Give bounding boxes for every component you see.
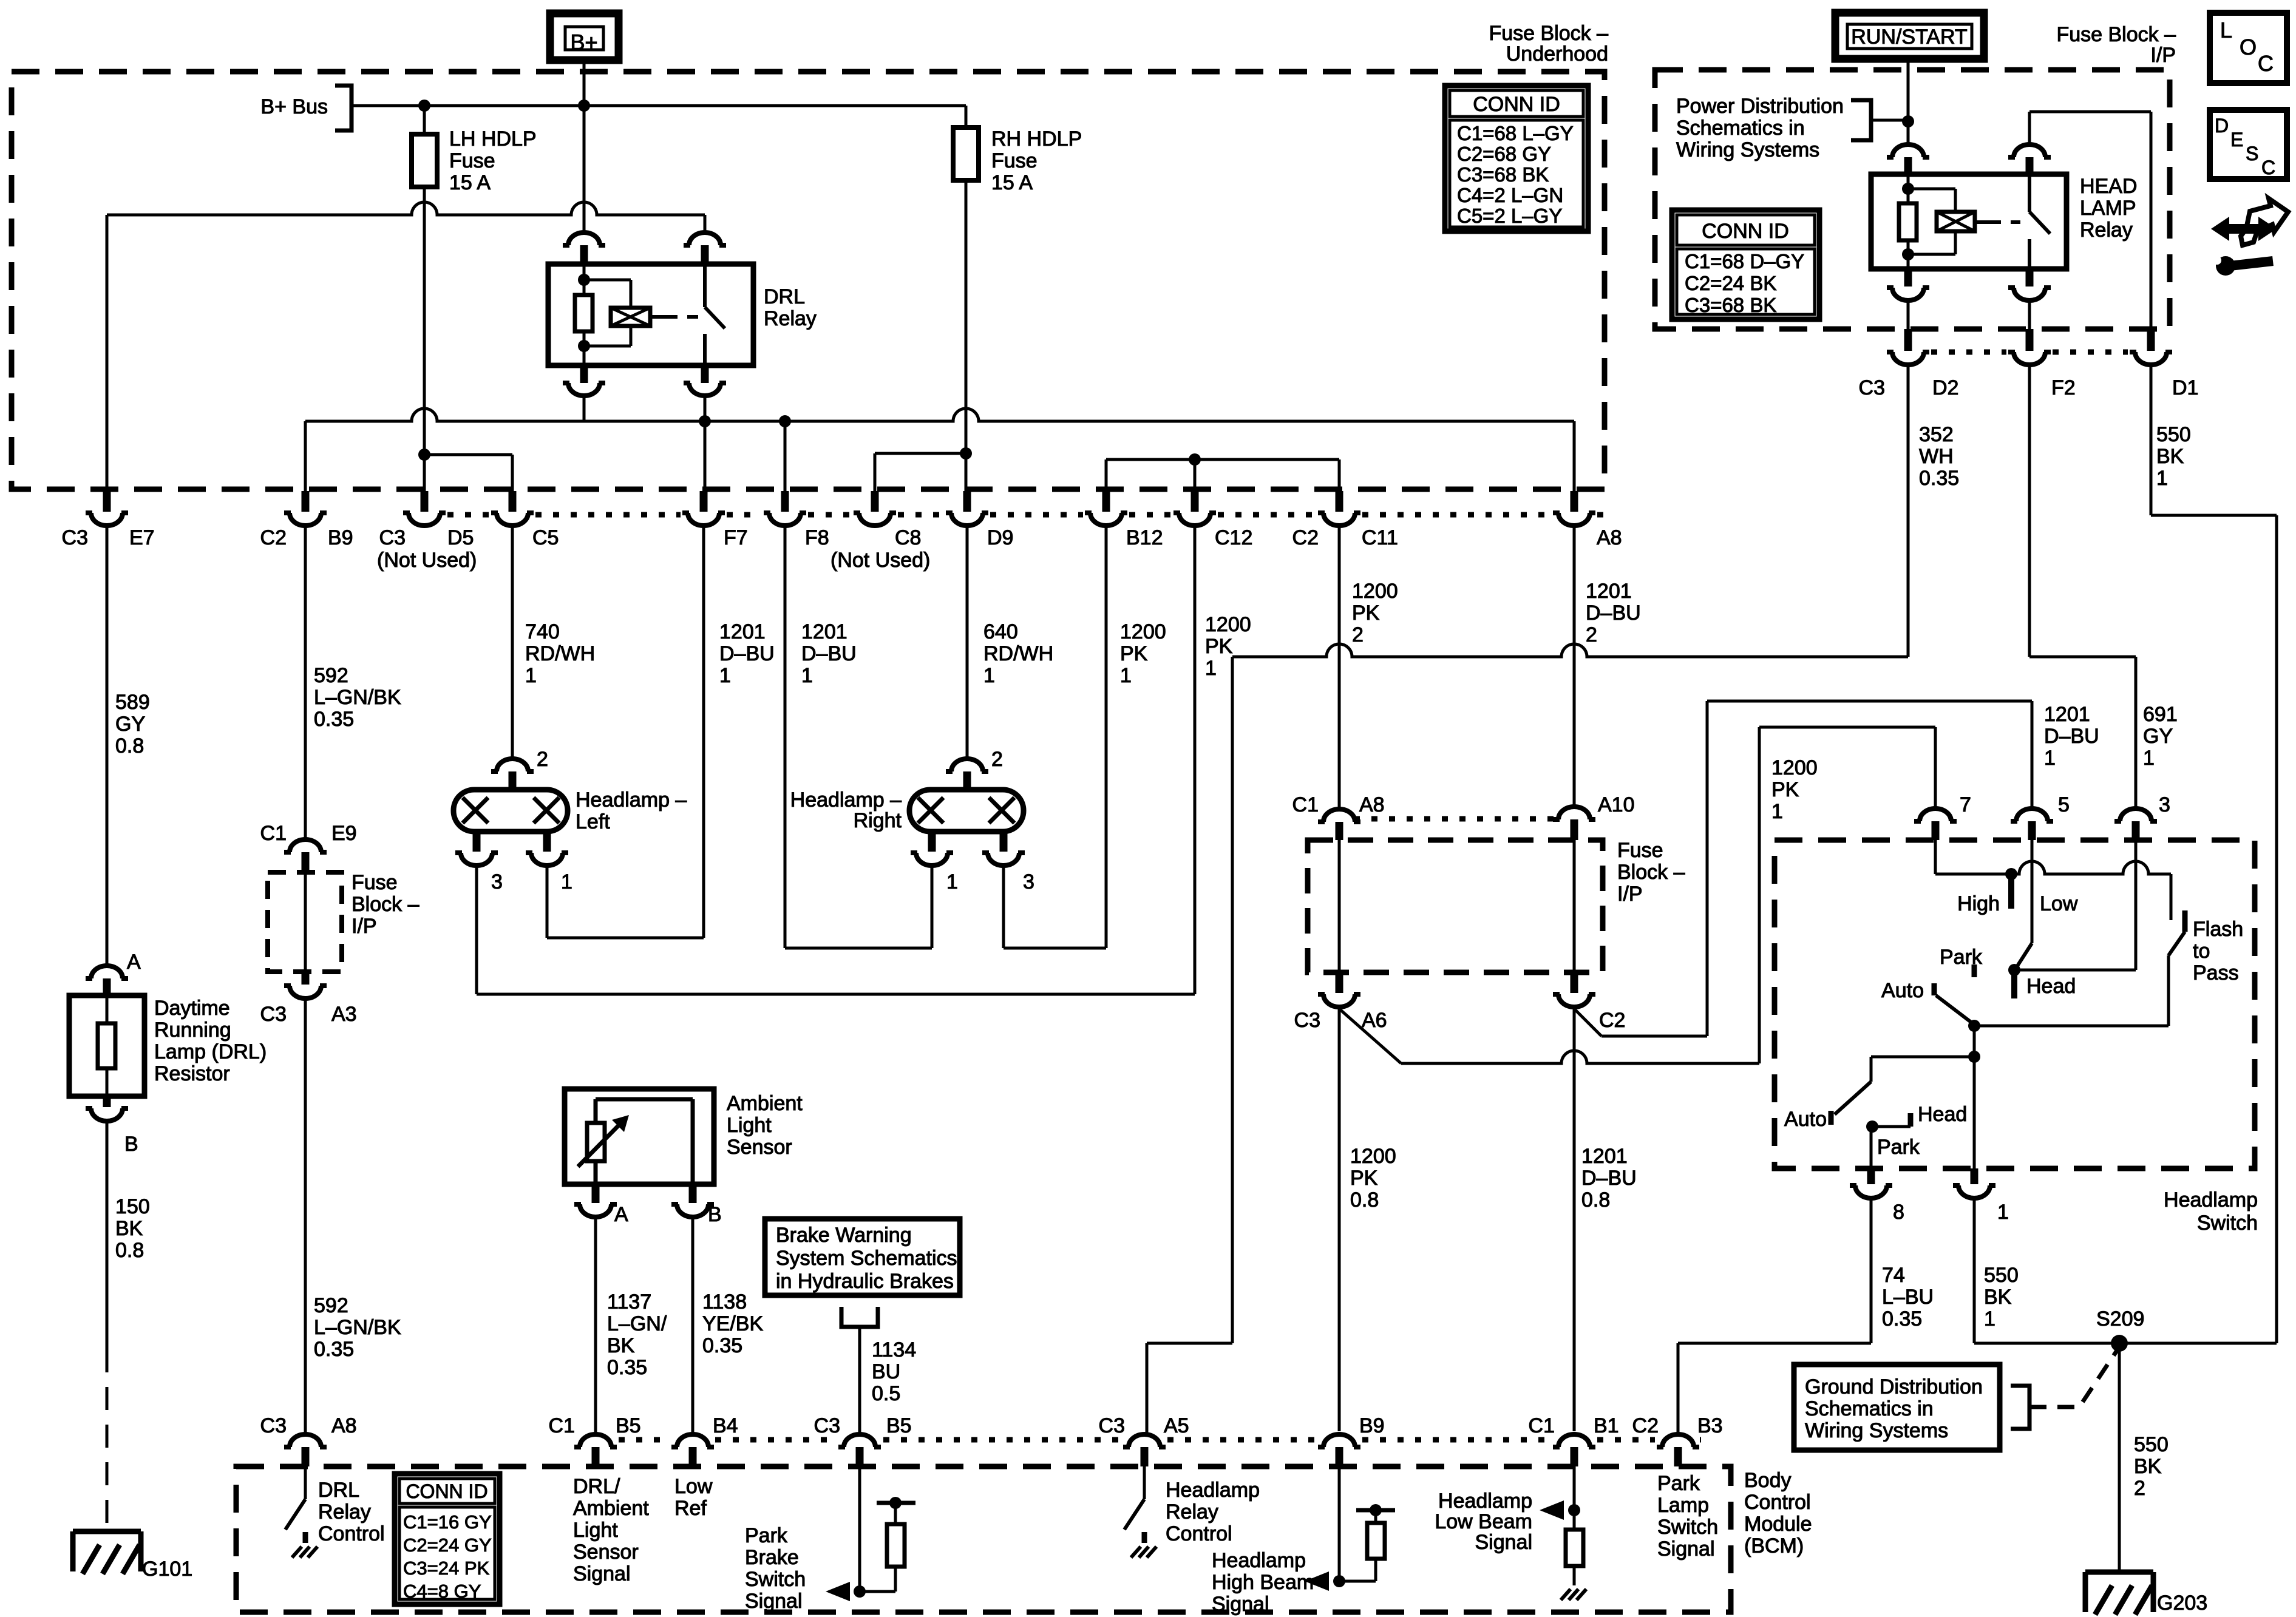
svg-text:C3: C3 [260, 1003, 287, 1026]
svg-text:Relay: Relay [318, 1500, 371, 1524]
wire C5 branch [424, 455, 512, 491]
svg-text:PK: PK [1352, 602, 1380, 625]
svg-text:I/P: I/P [2150, 44, 2176, 67]
connector F2 [2008, 329, 2076, 399]
wire 1200 PK 2 to fuse block [1292, 527, 1398, 840]
svg-text:C2: C2 [260, 526, 287, 549]
BCM headlamp relay control switch [1124, 1466, 1260, 1558]
svg-text:High: High [1957, 892, 2000, 915]
dotted connector face underhood [447, 512, 1610, 518]
switch dimmer contacts [1935, 840, 2171, 998]
svg-text:Ambient: Ambient [573, 1497, 649, 1520]
label Fuse Block IP top [2056, 23, 2176, 67]
svg-text:Signal: Signal [1212, 1593, 1269, 1616]
svg-text:Power Distribution: Power Distribution [1676, 95, 1844, 118]
svg-text:RD/WH: RD/WH [525, 642, 595, 665]
svg-text:F8: F8 [805, 526, 829, 549]
BCM DRL relay control switch [285, 1466, 385, 1558]
svg-text:Park: Park [745, 1524, 788, 1547]
svg-text:5: 5 [2058, 793, 2070, 816]
connector C2/B3 BCM [1632, 1414, 1723, 1466]
svg-text:B5: B5 [616, 1414, 641, 1437]
svg-text:Underhood: Underhood [1506, 42, 1608, 66]
svg-text:0.8: 0.8 [115, 1239, 144, 1262]
svg-text:C3: C3 [62, 526, 88, 549]
svg-text:550: 550 [1984, 1264, 2019, 1287]
connector C3/A3 [260, 972, 357, 1026]
svg-text:1201: 1201 [1581, 1145, 1628, 1168]
svg-text:Low: Low [2040, 892, 2078, 915]
svg-text:Headlamp: Headlamp [1212, 1549, 1306, 1572]
label park lamp switch signal [1657, 1472, 1718, 1561]
switch pin 1 [1953, 1168, 2009, 1224]
svg-text:E9: E9 [331, 822, 357, 845]
svg-text:BK: BK [2134, 1455, 2162, 1478]
BCM high beam input [1212, 1466, 1395, 1616]
switch selector upper [1784, 946, 2169, 1131]
connector C3/B5 park brake [814, 1414, 912, 1466]
svg-text:D–BU: D–BU [1586, 602, 1641, 625]
svg-text:GY: GY [2143, 725, 2173, 748]
svg-text:0.5: 0.5 [872, 1382, 900, 1405]
ground G203 [2085, 1572, 2207, 1615]
connector C1/B5 BCM [549, 1414, 641, 1466]
switch pin 8 [1850, 1168, 1904, 1224]
connector D1 [2130, 329, 2198, 399]
svg-text:to: to [2193, 940, 2210, 963]
svg-text:B3: B3 [1697, 1414, 1723, 1437]
svg-text:C2=68 GY: C2=68 GY [1457, 143, 1551, 165]
svg-text:Headlamp –: Headlamp – [790, 788, 902, 812]
svg-text:1: 1 [719, 664, 731, 687]
svg-text:O: O [2240, 35, 2257, 59]
wire DRL switch feed [107, 202, 705, 491]
wire 74 L-BU [1678, 1200, 1934, 1432]
svg-text:7: 7 [1960, 793, 1971, 816]
svg-text:1: 1 [561, 870, 572, 893]
svg-text:1: 1 [1771, 800, 1783, 823]
svg-text:BK: BK [2156, 445, 2184, 468]
svg-text:C11: C11 [1362, 526, 1398, 549]
DRL resistor [69, 951, 267, 1156]
svg-text:1200: 1200 [1350, 1145, 1396, 1168]
wire B12 C12 C11 tie [1106, 453, 1339, 491]
svg-text:B+ Bus: B+ Bus [260, 95, 328, 118]
svg-text:C5=2 L–GY: C5=2 L–GY [1457, 205, 1562, 227]
fuse RH HDLP 15A [953, 106, 1082, 194]
connector C3/E7 [62, 491, 155, 549]
svg-text:1: 1 [946, 870, 958, 893]
svg-text:A: A [127, 951, 141, 974]
svg-text:B5: B5 [886, 1414, 912, 1437]
label Fuse Block Underhood [1489, 22, 1608, 66]
wire 589 GY to DRL resistor [107, 527, 150, 964]
svg-text:C3: C3 [260, 1414, 287, 1437]
wire 1201 D-BU 0.8 to BCM [1574, 1009, 1637, 1431]
svg-text:Brake Warning: Brake Warning [776, 1224, 912, 1247]
connector B4 BCM [671, 1414, 738, 1466]
svg-text:PK: PK [1350, 1167, 1378, 1190]
svg-text:0.35: 0.35 [1882, 1307, 1922, 1331]
svg-text:C3: C3 [1859, 376, 1885, 399]
svg-text:Fuse: Fuse [991, 149, 1038, 172]
wire B+ bus [352, 60, 966, 112]
svg-text:Wiring Systems: Wiring Systems [1805, 1419, 1948, 1442]
svg-text:2: 2 [991, 748, 1003, 771]
svg-text:C3=68 BK: C3=68 BK [1457, 163, 1549, 186]
svg-text:A8: A8 [331, 1414, 357, 1437]
svg-text:(BCM): (BCM) [1744, 1534, 1804, 1558]
svg-text:Schematics in: Schematics in [1676, 117, 1805, 140]
svg-text:C3: C3 [379, 526, 406, 549]
wire F2 to switch 691 GY [2029, 367, 2178, 807]
svg-text:C3: C3 [814, 1414, 840, 1437]
note power distribution schematics [1676, 95, 1908, 161]
svg-text:691: 691 [2143, 703, 2178, 726]
svg-text:C12: C12 [1215, 526, 1252, 549]
svg-text:Ref: Ref [674, 1497, 707, 1520]
svg-text:C1: C1 [1529, 1414, 1555, 1437]
svg-text:S209: S209 [2096, 1307, 2144, 1331]
svg-text:Headlamp: Headlamp [1166, 1479, 1260, 1502]
svg-text:Park: Park [1877, 1136, 1920, 1159]
wire 592 lower [305, 1000, 401, 1432]
svg-text:C8: C8 [895, 526, 921, 549]
svg-text:DRL: DRL [764, 285, 805, 308]
svg-text:Fuse: Fuse [449, 149, 495, 172]
svg-text:L: L [2220, 18, 2232, 42]
svg-text:550: 550 [2134, 1433, 2169, 1456]
svg-text:Lamp: Lamp [1657, 1494, 1709, 1517]
svg-text:0.35: 0.35 [607, 1356, 647, 1379]
connector B9 BCM [1318, 1414, 1385, 1466]
connector C2/B9 [260, 491, 353, 549]
svg-text:A8: A8 [1359, 793, 1385, 816]
svg-text:C2: C2 [1599, 1009, 1625, 1032]
svg-text:BK: BK [1984, 1286, 2012, 1309]
BCM park brake input [745, 1466, 915, 1613]
wire 550 BK 1 pin1 [1974, 1200, 2277, 1343]
note ground distribution [1794, 1351, 2117, 1450]
svg-text:L–BU: L–BU [1882, 1286, 1934, 1309]
svg-text:1: 1 [983, 664, 995, 687]
wire 150 BK to ground [107, 1123, 150, 1530]
wire RH fuse output [960, 180, 972, 491]
svg-text:Sensor: Sensor [573, 1541, 639, 1564]
connector B12 [1085, 491, 1163, 549]
svg-text:D–BU: D–BU [719, 642, 775, 665]
svg-text:D: D [2215, 115, 2229, 137]
splice S209 [2096, 1307, 2144, 1352]
fuse LH HDLP 15A [412, 106, 537, 194]
switch selector lower [1866, 1057, 1974, 1168]
svg-text:0.8: 0.8 [1581, 1188, 1610, 1212]
svg-text:C1: C1 [1292, 793, 1319, 816]
svg-text:Fuse Block –: Fuse Block – [2056, 23, 2176, 46]
svg-text:Signal: Signal [573, 1562, 631, 1585]
svg-text:1201: 1201 [801, 620, 847, 643]
wire 1137 sensor signal [596, 1219, 667, 1432]
svg-text:(Not Used): (Not Used) [830, 549, 930, 572]
svg-text:Head: Head [1918, 1103, 1967, 1126]
body control module box [236, 1466, 1812, 1612]
svg-text:3: 3 [491, 870, 503, 893]
svg-text:L–GN/: L–GN/ [607, 1312, 667, 1335]
svg-text:CONN ID: CONN ID [1473, 93, 1560, 116]
svg-text:8: 8 [1893, 1201, 1904, 1224]
svg-text:C1=68 L–GY: C1=68 L–GY [1457, 122, 1574, 144]
switch pin 3 [2114, 793, 2170, 840]
wire 1200 PK 0.8 to BCM [1339, 1009, 1396, 1431]
svg-text:A10: A10 [1598, 793, 1635, 816]
svg-text:1: 1 [2044, 747, 2056, 770]
wire 592 upper [305, 527, 401, 838]
svg-text:1134: 1134 [872, 1338, 916, 1361]
svg-text:2: 2 [1352, 623, 1364, 646]
ambient light sensor [565, 1089, 803, 1226]
wire low beam right 1201 [785, 527, 932, 948]
svg-text:Control: Control [1166, 1522, 1232, 1545]
connector C2/C11 [1292, 491, 1398, 549]
svg-text:Relay: Relay [2080, 219, 2133, 242]
svg-text:Block –: Block – [352, 893, 419, 916]
svg-text:RH HDLP: RH HDLP [991, 127, 1082, 151]
svg-text:in Hydraulic Brakes: in Hydraulic Brakes [776, 1270, 954, 1293]
svg-text:Control: Control [1744, 1491, 1811, 1514]
svg-text:(Not Used): (Not Used) [377, 549, 477, 572]
svg-text:C2: C2 [1292, 526, 1319, 549]
svg-text:Lamp (DRL): Lamp (DRL) [154, 1040, 267, 1063]
svg-text:15 A: 15 A [449, 171, 491, 194]
fuse block IP middle [1308, 819, 1685, 972]
wire C8 branch [875, 453, 966, 491]
svg-text:Wiring Systems: Wiring Systems [1676, 138, 1819, 161]
svg-text:F2: F2 [2051, 376, 2076, 399]
svg-text:D2: D2 [1932, 376, 1958, 399]
svg-text:640: 640 [983, 620, 1018, 643]
svg-text:589: 589 [115, 691, 150, 714]
svg-text:D–BU: D–BU [1581, 1167, 1637, 1190]
node B+ Bus bracket [260, 86, 352, 131]
fuse block IP dashed box top right [1655, 70, 2170, 329]
svg-text:A6: A6 [1362, 1009, 1387, 1032]
svg-text:2: 2 [1586, 623, 1597, 646]
svg-text:BK: BK [115, 1217, 143, 1240]
connector C2 fuse block [1553, 972, 1625, 1032]
svg-text:1: 1 [1205, 657, 1217, 680]
wire 550 BK 1 from D1 [2151, 367, 2277, 1343]
headlamp relay [1871, 59, 2151, 329]
switch pin 5 [2011, 793, 2070, 840]
svg-text:C: C [2258, 51, 2274, 76]
svg-text:E: E [2230, 129, 2243, 151]
svg-text:Left: Left [576, 810, 610, 833]
svg-text:B: B [708, 1203, 722, 1226]
svg-text:Auto: Auto [1784, 1108, 1827, 1131]
svg-text:Light: Light [727, 1114, 772, 1137]
svg-text:1200: 1200 [1205, 613, 1251, 636]
connector A8 underhood [1553, 491, 1622, 549]
svg-text:I/P: I/P [1617, 883, 1643, 906]
svg-text:C3: C3 [1099, 1414, 1125, 1437]
svg-text:15 A: 15 A [991, 171, 1033, 194]
svg-text:HEAD: HEAD [2080, 175, 2137, 198]
svg-text:2: 2 [2134, 1477, 2145, 1500]
svg-text:Ambient: Ambient [727, 1092, 803, 1115]
svg-text:L–GN/BK: L–GN/BK [314, 1316, 401, 1339]
svg-text:Headlamp: Headlamp [2164, 1188, 2258, 1212]
svg-text:B+: B+ [570, 30, 597, 55]
svg-text:GY: GY [115, 713, 145, 736]
svg-text:B4: B4 [713, 1414, 738, 1437]
svg-text:L–GN/BK: L–GN/BK [314, 686, 401, 709]
svg-text:Daytime: Daytime [154, 997, 230, 1020]
svg-text:C2: C2 [1632, 1414, 1659, 1437]
svg-text:High Beam: High Beam [1212, 1571, 1314, 1594]
svg-text:Low Beam: Low Beam [1435, 1510, 1532, 1533]
svg-text:D9: D9 [987, 526, 1013, 549]
svg-text:Running: Running [154, 1019, 231, 1042]
svg-text:Head: Head [2026, 975, 2076, 998]
svg-text:Right: Right [854, 809, 902, 832]
svg-text:BU: BU [872, 1360, 900, 1383]
svg-text:RUN/START: RUN/START [1851, 25, 1967, 49]
svg-text:Switch: Switch [2197, 1212, 2258, 1235]
connector C3/D5 not used [377, 491, 477, 572]
BCM low beam input [1435, 1466, 1586, 1600]
svg-text:C3=68 BK: C3=68 BK [1685, 294, 1776, 316]
svg-text:CONN ID: CONN ID [1702, 220, 1789, 243]
svg-text:Light: Light [573, 1519, 618, 1542]
svg-text:550: 550 [2156, 423, 2191, 446]
svg-text:S: S [2246, 143, 2258, 164]
svg-text:Control: Control [318, 1522, 385, 1545]
svg-text:Signal: Signal [1657, 1537, 1715, 1561]
connector F8 [764, 491, 829, 549]
svg-text:CONN ID: CONN ID [406, 1480, 487, 1502]
power terminal RUN/START [1835, 13, 1984, 59]
svg-text:F7: F7 [724, 526, 748, 549]
connector C12 [1173, 491, 1252, 549]
svg-text:System Schematics: System Schematics [776, 1247, 957, 1270]
svg-text:C1=68 D–GY: C1=68 D–GY [1685, 250, 1804, 273]
svg-text:B: B [124, 1133, 138, 1156]
switch flash to pass [2169, 874, 2243, 1026]
wire 1134 BU [872, 1338, 916, 1405]
svg-text:0.35: 0.35 [314, 1338, 354, 1361]
svg-text:PK: PK [1205, 635, 1233, 658]
svg-text:74: 74 [1882, 1264, 1905, 1287]
headlamp switch box [1775, 840, 2258, 1235]
label low ref [674, 1475, 713, 1520]
fuse block IP small [268, 871, 419, 972]
svg-text:1138: 1138 [702, 1290, 747, 1314]
svg-text:A8: A8 [1597, 526, 1622, 549]
svg-text:Signal: Signal [745, 1590, 803, 1613]
wire DRL relay output bus [305, 398, 1574, 491]
svg-text:C1=16 GY: C1=16 GY [403, 1511, 492, 1533]
svg-text:C: C [2261, 157, 2275, 178]
svg-text:C5: C5 [532, 526, 559, 549]
conn id table underhood [1445, 86, 1588, 231]
wire headlamp right ground 1200 B12 [1004, 527, 1166, 948]
svg-text:C1: C1 [260, 822, 287, 845]
svg-text:DRL: DRL [318, 1479, 359, 1502]
svg-text:Sensor: Sensor [727, 1136, 792, 1159]
svg-text:1: 1 [801, 664, 813, 687]
svg-text:0.8: 0.8 [115, 734, 144, 758]
svg-text:D–BU: D–BU [2044, 725, 2099, 748]
svg-text:1200: 1200 [1771, 756, 1818, 779]
wire 1138 low ref [693, 1219, 763, 1432]
svg-text:Resistor: Resistor [154, 1062, 230, 1085]
svg-text:0.35: 0.35 [314, 708, 354, 731]
wire 352 WH [1147, 367, 1959, 1432]
svg-text:1: 1 [2156, 467, 2168, 490]
svg-text:DRL/: DRL/ [573, 1475, 620, 1498]
svg-text:0.8: 0.8 [1350, 1188, 1379, 1212]
svg-text:Relay: Relay [1166, 1500, 1218, 1524]
svg-text:Body: Body [1744, 1469, 1792, 1492]
svg-text:Fuse Block –: Fuse Block – [1489, 22, 1608, 45]
svg-text:D5: D5 [447, 526, 474, 549]
svg-text:1200: 1200 [1120, 620, 1166, 643]
connector C1/B1 BCM [1529, 1414, 1619, 1466]
connector C3/A6 [1294, 972, 1387, 1032]
svg-text:LAMP: LAMP [2080, 197, 2136, 220]
connector F7 [682, 491, 748, 549]
svg-text:Headlamp –: Headlamp – [576, 788, 687, 812]
svg-text:B9: B9 [328, 526, 353, 549]
svg-text:E7: E7 [129, 526, 155, 549]
svg-text:1: 1 [1120, 664, 1132, 687]
wire 1200 PK to headlamp switch [1339, 727, 1935, 1063]
svg-text:Brake: Brake [745, 1546, 799, 1569]
svg-text:Fuse: Fuse [1617, 839, 1663, 862]
svg-text:1200: 1200 [1352, 580, 1398, 603]
svg-text:Relay: Relay [764, 307, 817, 330]
svg-text:1: 1 [1997, 1201, 2009, 1224]
svg-text:YE/BK: YE/BK [702, 1312, 763, 1335]
svg-text:D–BU: D–BU [801, 642, 857, 665]
svg-text:C2=24 GY: C2=24 GY [403, 1534, 492, 1556]
svg-text:352: 352 [1919, 423, 1954, 446]
svg-text:Park: Park [1657, 1472, 1700, 1495]
svg-text:C3: C3 [1294, 1009, 1320, 1032]
svg-text:1137: 1137 [607, 1290, 651, 1314]
connector C5 [491, 491, 559, 549]
ground G101 [73, 1531, 192, 1581]
svg-text:0.35: 0.35 [1919, 467, 1959, 490]
icon pointer and wrench [2211, 198, 2288, 276]
svg-text:Ground Distribution: Ground Distribution [1805, 1375, 1983, 1398]
label DRL ambient light sensor signal [573, 1475, 649, 1585]
svg-text:Module: Module [1744, 1513, 1812, 1536]
svg-text:C1: C1 [549, 1414, 575, 1437]
connector D9 [946, 491, 1013, 549]
svg-text:1201: 1201 [719, 620, 766, 643]
svg-text:1: 1 [525, 664, 537, 687]
svg-text:Schematics in: Schematics in [1805, 1397, 1934, 1420]
svg-text:150: 150 [115, 1195, 150, 1218]
svg-text:Flash: Flash [2193, 918, 2243, 941]
svg-text:1: 1 [2143, 747, 2155, 770]
BCM connector face dotted [619, 1437, 1701, 1443]
dotted connector face IP top [1931, 350, 2128, 355]
svg-text:1: 1 [1984, 1307, 1995, 1331]
icon LOC [2210, 13, 2287, 83]
svg-text:Block –: Block – [1617, 861, 1685, 884]
